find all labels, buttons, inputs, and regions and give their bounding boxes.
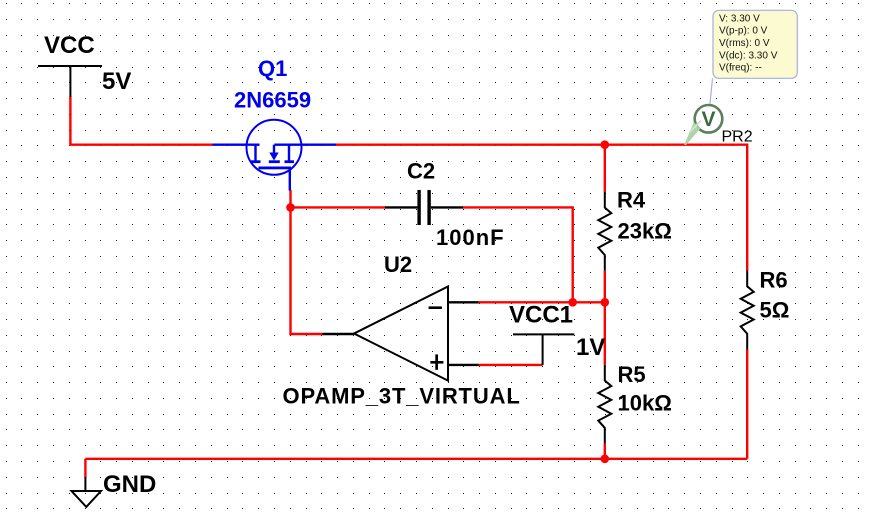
wire: Q1 gate node down to opamp output [291, 190, 323, 334]
svg-text:1V: 1V [576, 334, 605, 361]
svg-text:V(rms): 0 V: V(rms): 0 V [719, 38, 770, 49]
svg-text:23kΩ: 23kΩ [618, 219, 672, 244]
wire: GND stem [84, 459, 86, 478]
svg-text:C2: C2 [407, 158, 435, 183]
label VCC1 [509, 302, 573, 329]
svg-text:R4: R4 [617, 188, 646, 213]
wire: VCC to Q1 drain (top left L) [70, 97, 212, 145]
wire: Q1 source to top-right corner and down to R6 [336, 145, 747, 271]
label GND [103, 471, 156, 498]
svg-text:PR2: PR2 [722, 128, 753, 145]
ground [72, 477, 102, 507]
svg-text:2N6659: 2N6659 [234, 88, 311, 113]
wire: R5 bottom to ground rail [604, 444, 606, 459]
label 2N6659 [234, 88, 311, 113]
svg-text:U2: U2 [384, 252, 412, 277]
svg-text:V(p-p): 0 V: V(p-p): 0 V [719, 26, 768, 37]
wire: C2 right to inverting input node [463, 207, 573, 302]
probe PR2 circle [695, 105, 723, 133]
svg-text:Q1: Q1 [258, 56, 287, 81]
svg-text:V: V [701, 108, 715, 131]
label 23kΩ [618, 219, 672, 244]
label R5 [618, 362, 646, 387]
wire: R4 top [604, 145, 606, 192]
probe tooltip text [719, 14, 778, 74]
wire: R4 bottom to node [604, 271, 606, 303]
capacitor C2 [385, 190, 463, 225]
junction: R4/R5 divider node [601, 298, 610, 307]
wire: ground rail bottom [85, 458, 747, 460]
junction: gate/output/C2 node [286, 203, 295, 212]
label VCC [44, 32, 95, 59]
label 5Ω [760, 298, 790, 323]
label PR2 [722, 128, 753, 145]
probe tooltip box [713, 10, 797, 78]
label C2 [407, 158, 435, 183]
label OPAMP_3T_VIRTUAL [283, 384, 521, 409]
label R4 [617, 188, 646, 213]
junction: top rail at R4 [601, 140, 610, 149]
svg-text:GND: GND [103, 471, 156, 498]
svg-text:OPAMP_3T_VIRTUAL: OPAMP_3T_VIRTUAL [283, 384, 521, 409]
junction: ground rail at R5 [601, 455, 610, 464]
power symbol VCC1 (1V source) [513, 334, 574, 365]
svg-text:5V: 5V [102, 68, 131, 95]
svg-text:R6: R6 [760, 268, 788, 293]
power symbol VCC [38, 66, 102, 97]
svg-text:V(freq): --: V(freq): -- [719, 63, 762, 74]
wire: node to R5 top [604, 302, 606, 364]
wire: opamp non-inverting input to VCC1 [479, 364, 543, 366]
svg-text:V(dc): 3.30 V: V(dc): 3.30 V [719, 51, 778, 62]
junction: C2 feedback at inverting input [568, 298, 577, 307]
label Q1 [258, 56, 287, 81]
svg-text:V: 3.30 V: V: 3.30 V [719, 14, 760, 25]
svg-text:10kΩ: 10kΩ [618, 391, 672, 416]
wire: R6 bottom to ground rail [746, 350, 748, 459]
wire: gate node to C2 left [291, 206, 386, 208]
probe PR2 needle [684, 121, 701, 146]
op-amp U2 [323, 287, 479, 381]
label 1V [576, 334, 605, 361]
label U2 [384, 252, 412, 277]
svg-text:5Ω: 5Ω [760, 298, 790, 323]
label 10kΩ [618, 391, 672, 416]
probe PR2 leader line [710, 78, 713, 104]
svg-text:100nF: 100nF [436, 225, 505, 250]
svg-text:R5: R5 [618, 362, 646, 387]
resistor R6 [741, 271, 754, 350]
transistor Q1 (MOSFET 2N6659) [213, 120, 337, 191]
label 100nF [436, 225, 505, 250]
wire: opamp inverting input to R4/R5 node [479, 301, 605, 303]
svg-text:VCC1: VCC1 [509, 302, 573, 329]
resistor R5 [598, 365, 611, 444]
label 5V [102, 68, 131, 95]
svg-text:VCC: VCC [44, 32, 95, 59]
label R6 [760, 268, 788, 293]
resistor R4 [598, 192, 611, 271]
